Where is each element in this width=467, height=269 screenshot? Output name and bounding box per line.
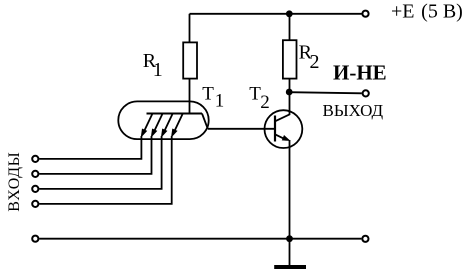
T1 base bar	[147, 113, 203, 115]
node: junction of R2 branch on +E rail	[286, 10, 293, 17]
resistor R1	[183, 42, 197, 78]
terminal: bottom left	[32, 236, 38, 242]
svg-text:ВХОДЫ: ВХОДЫ	[6, 152, 23, 212]
resistor R2	[283, 40, 297, 78]
T2 emitter with arrow	[275, 134, 289, 140]
terminal: input 4	[32, 201, 38, 207]
transistor T1 body (multi-emitter, stadium outline)	[118, 101, 208, 139]
wire: T2 emitter down to ground rail	[289, 140, 291, 239]
wire: R1 to T1 base	[189, 79, 191, 114]
wire: +E top rail	[190, 13, 362, 15]
svg-text:+E (5 В): +E (5 В)	[391, 1, 463, 23]
node: ground junction	[286, 235, 293, 242]
terminal: input 1	[32, 156, 38, 162]
svg-text:2: 2	[260, 92, 270, 113]
label R2	[299, 42, 320, 73]
ground	[274, 265, 306, 269]
transistor T2 circle	[265, 110, 303, 148]
T2 base bar	[274, 116, 276, 142]
T2 collector	[275, 92, 290, 121]
wire: input 4	[39, 136, 172, 204]
terminal: output	[363, 90, 369, 96]
wire: top rail to R2	[289, 14, 291, 40]
svg-text:2: 2	[310, 51, 320, 73]
svg-text:И-НЕ: И-НЕ	[333, 61, 387, 85]
wire: ground stub	[289, 239, 291, 266]
T1 emitter 4 arrow	[172, 114, 183, 137]
svg-text:ВЫХОД: ВЫХОД	[323, 101, 384, 120]
terminal: bottom right	[362, 236, 368, 242]
wire: R2 to output node	[289, 79, 291, 92]
label T1	[202, 84, 224, 112]
label T2	[249, 84, 270, 114]
T1 emitter 3 arrow	[162, 114, 173, 137]
T1 collector diagonal	[202, 114, 208, 129]
terminal: +E supply	[362, 11, 368, 17]
terminal: input 3	[32, 186, 38, 192]
node: output junction	[286, 89, 293, 96]
svg-text:T: T	[202, 84, 214, 105]
wire: input 2	[39, 136, 151, 174]
svg-text:1: 1	[153, 59, 163, 81]
wire: T1 collector to T2 base	[208, 128, 275, 130]
wire: bottom rail	[39, 238, 361, 240]
wire: input 1	[39, 136, 141, 159]
label R1	[143, 50, 163, 81]
wire: input 3	[39, 136, 161, 189]
wire: top rail to R1	[189, 14, 191, 43]
wire: output	[289, 92, 362, 93]
T1 emitter 1 arrow	[141, 114, 152, 137]
T1 emitter 2 arrow	[152, 114, 163, 137]
svg-text:1: 1	[215, 91, 225, 112]
terminal: input 2	[32, 171, 38, 177]
